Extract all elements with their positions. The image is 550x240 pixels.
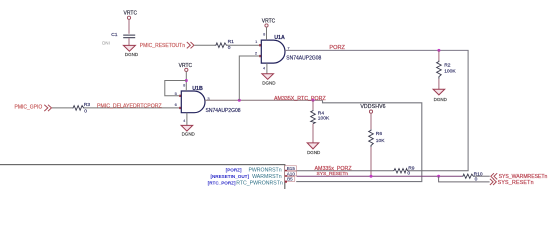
svg-text:SN74AUP2G08: SN74AUP2G08 [206, 108, 241, 114]
wire to U1A pin 2 [239, 56, 259, 100]
svg-text:R6: R6 [376, 131, 383, 137]
svg-text:PMIC_RESETOUTn: PMIC_RESETOUTn [140, 43, 185, 49]
svg-text:A10: A10 [287, 171, 296, 176]
capacitor C1 plates [123, 34, 135, 36]
svg-text:100K: 100K [444, 68, 456, 74]
svg-text:[NRESETIN_OUT]: [NRESETIN_OUT] [210, 174, 249, 179]
ground DGND (R2) [433, 89, 445, 95]
node junction (branch to SYS_RESETn out) [437, 175, 440, 178]
resistor R3 [72, 102, 90, 114]
pin A10 [285, 171, 297, 176]
svg-text:R3: R3 [84, 102, 91, 108]
node junction (U1A pin2 branch) [238, 99, 241, 102]
svg-text:PWRONRSTn: PWRONRSTn [248, 168, 281, 174]
ground DGND (C1) [123, 45, 135, 51]
svg-text:SYS_RESETn: SYS_RESETn [498, 180, 534, 186]
wire [227, 44, 259, 46]
svg-text:4: 4 [183, 119, 185, 123]
pin B15 [285, 166, 297, 171]
svg-text:4: 4 [263, 66, 265, 70]
resistor R6 [369, 129, 386, 176]
svg-text:RTC_PWRONRSTn: RTC_PWRONRSTn [236, 181, 283, 187]
svg-text:U1A: U1A [274, 35, 285, 41]
wire [128, 38, 130, 45]
svg-text:0: 0 [407, 170, 410, 176]
node PMIC_GPIO (off-page connector) [15, 104, 52, 111]
AND gate U1A (SN74AUP2G08) [255, 18, 322, 85]
wire pin5 tie-high loop [165, 81, 187, 96]
node junction (R4 tap) [312, 99, 315, 102]
svg-text:VRTC: VRTC [124, 11, 138, 17]
svg-text:C1: C1 [111, 32, 118, 38]
svg-text:B15: B15 [287, 166, 296, 171]
wire pin 4 [186, 113, 188, 126]
svg-text:DGND: DGND [182, 132, 196, 137]
wire AM335x_PORZ (row 1) [297, 166, 394, 172]
svg-text:SYS_RESETn: SYS_RESETn [317, 171, 349, 177]
wire vertical PORZ to bottom right [467, 50, 469, 170]
svg-text:WARMRSTn: WARMRSTn [252, 174, 282, 180]
wire AM335X_RTC_PORZ net [205, 56, 422, 182]
wire [475, 175, 490, 177]
wire pin 8 [266, 27, 268, 40]
resistor R10 [462, 171, 490, 182]
svg-text:R1: R1 [228, 39, 235, 45]
svg-text:10K: 10K [376, 138, 385, 144]
capacitor C1 [102, 11, 139, 57]
VDDSHV6 power symbol [360, 104, 385, 129]
node junction (VRTC / pin5 loop) [185, 79, 188, 82]
svg-text:PMIC_GPIO: PMIC_GPIO [15, 104, 43, 110]
svg-text:VDDSHV6: VDDSHV6 [360, 104, 385, 110]
svg-text:DGND: DGND [262, 80, 276, 85]
svg-text:R2: R2 [444, 63, 451, 69]
svg-text:8: 8 [263, 32, 265, 36]
svg-text:U1B: U1B [192, 86, 203, 92]
svg-text:PORZ: PORZ [329, 45, 345, 51]
ground DGND (U1A) [262, 74, 274, 80]
resistor R1 [215, 39, 234, 51]
node junction (R6 bottom) [370, 175, 373, 178]
svg-text:DGND: DGND [307, 150, 321, 155]
wire PMIC_DELAYEDRTCPORZ [85, 104, 180, 110]
node SYS_WARMRESETn (off-page connector) [491, 173, 548, 180]
svg-text:0: 0 [475, 177, 478, 183]
ground DGND (U1B) [181, 125, 193, 131]
svg-text:100K: 100K [318, 115, 330, 121]
AND gate U1B (SN74AUP2G08) [165, 63, 241, 137]
resistor R4 [307, 100, 330, 155]
wire pin 4 [266, 63, 268, 74]
svg-text:DNI: DNI [102, 40, 110, 45]
wire [128, 19, 130, 33]
wire [195, 44, 216, 46]
ground DGND (R4) [307, 143, 319, 149]
node SYS_RESETn (off-page connector) [490, 179, 534, 186]
wire branch down to output row [439, 176, 490, 182]
wire PORZ net [285, 45, 469, 171]
svg-text:0: 0 [84, 109, 87, 115]
svg-text:[PORZ]: [PORZ] [226, 167, 242, 172]
wire [408, 170, 469, 172]
AM335x block (bottom-left box) [0, 165, 297, 195]
svg-text:8: 8 [183, 84, 185, 88]
svg-text:DGND: DGND [125, 52, 139, 57]
wire [52, 107, 72, 109]
svg-text:PMIC_DELAYEDRTCPORZ: PMIC_DELAYEDRTCPORZ [97, 104, 162, 110]
svg-text:B5: B5 [287, 177, 293, 182]
wire grey route to RTC_PWRONRSTn pin [296, 100, 422, 181]
svg-text:SN74AUP2G08: SN74AUP2G08 [286, 56, 321, 62]
pin B5 [285, 177, 295, 182]
wire pin 8 VRTC down [185, 72, 187, 92]
node PMIC_RESETOUTn (off-page connector) [140, 42, 194, 49]
wire SYS_RESETn (row 2) [297, 171, 490, 182]
node junction (PORZ / R2) [437, 49, 440, 52]
resistor R9 [393, 165, 469, 176]
resistor R2 [433, 50, 456, 102]
svg-text:VRTC: VRTC [262, 18, 276, 24]
svg-text:DGND: DGND [434, 97, 448, 102]
svg-text:[RTC_PORZ]: [RTC_PORZ] [208, 180, 236, 185]
svg-text:AM335X_RTC_PORZ: AM335X_RTC_PORZ [274, 96, 326, 102]
